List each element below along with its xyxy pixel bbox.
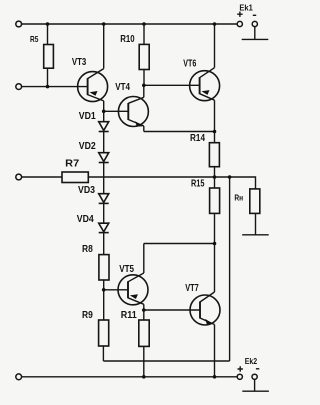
wire VT5 collector to main line: [144, 243, 215, 245]
junction top rail VT3 collector: [102, 22, 106, 26]
svg-text:R8: R8: [82, 244, 93, 255]
svg-text:Rн: Rн: [234, 192, 243, 202]
resistor R10: [139, 44, 149, 69]
resistor Rn load: [250, 189, 260, 214]
resistor R7: [62, 172, 88, 183]
junction top rail main: [213, 22, 217, 26]
wire VT3 collector vertical: [103, 24, 105, 69]
wire main vertical top: [214, 24, 216, 68]
svg-text:R7: R7: [65, 159, 79, 170]
wire VD4 to R8: [103, 233, 105, 255]
terminal input 2: [16, 84, 22, 90]
junction VT5 collector main: [213, 242, 217, 246]
wire Ek1 minus drop: [254, 27, 256, 40]
wire VT4 emitter drop: [143, 126, 145, 132]
svg-text:VT3: VT3: [72, 57, 87, 68]
svg-text:VD4: VD4: [77, 214, 94, 225]
wire VD2 to node out: [103, 163, 105, 194]
wire VD1 to VD2: [103, 132, 105, 153]
junction VT4 emitter main: [213, 130, 217, 134]
wire VD3 to VD4: [103, 203, 105, 223]
wire VT6 base: [144, 84, 200, 86]
transistor VT5: [118, 273, 148, 305]
label Ek1 plus sign: [237, 12, 242, 17]
wire main vertical R14 to R15: [214, 167, 216, 188]
svg-text:R9: R9: [82, 310, 93, 321]
svg-text:Ek1: Ek1: [239, 3, 253, 13]
svg-text:R15: R15: [191, 179, 205, 190]
wire Rn bottom to ground: [255, 213, 257, 234]
diode VD3: [99, 194, 109, 204]
junction top rail R5: [46, 22, 50, 26]
diode VD1: [99, 122, 109, 132]
junction bottom rail R11: [142, 375, 146, 379]
wire VT5 base: [104, 289, 128, 291]
svg-text:Ek2: Ek2: [245, 356, 258, 366]
terminal Ek1 plus: [237, 21, 242, 26]
wire R10 bottom: [143, 70, 145, 86]
wire VT5 collector vertical: [143, 244, 145, 274]
wire diode chain VT3 emitter to VD1: [103, 101, 105, 122]
resistor R11: [139, 320, 149, 346]
wire VT5 emitter drop: [143, 304, 145, 320]
terminal Ek1 minus: [252, 21, 257, 26]
svg-text:R5: R5: [30, 34, 39, 44]
terminal input 3: [16, 174, 22, 180]
ground Ek1 bar: [242, 38, 269, 40]
transistor VT7: [190, 292, 220, 325]
label Ek1 minus sign: [253, 14, 256, 16]
transistor VT6: [190, 68, 220, 101]
svg-text:VD2: VD2: [79, 141, 96, 152]
resistor R5: [44, 45, 54, 69]
wire VT3 base: [22, 86, 88, 88]
wire main vertical R15 to VT7 collector: [214, 213, 216, 292]
junction output main: [213, 175, 217, 179]
svg-text:R10: R10: [120, 33, 135, 45]
wire R5 bottom to input2: [47, 68, 49, 86]
ground Rn bar: [242, 234, 269, 236]
resistor R8: [99, 255, 109, 280]
wire R10 top drop: [143, 24, 145, 44]
transistor VT3: [78, 69, 108, 102]
wire feedback horizontal: [103, 360, 229, 362]
svg-text:VT6: VT6: [183, 59, 196, 70]
label Ek2 plus sign: [238, 366, 243, 371]
wire feedback vertical: [229, 177, 231, 361]
wire R9 bottom stub: [102, 346, 104, 361]
junction bottom rail main: [213, 375, 217, 379]
svg-text:R14: R14: [190, 133, 205, 144]
wire VT4 emitter to main line: [144, 131, 215, 133]
svg-text:VT5: VT5: [119, 264, 134, 275]
junction VT5 base node: [102, 288, 106, 292]
label Ek2 minus sign: [256, 368, 259, 370]
wire output node: [88, 177, 255, 189]
wire VT4 collector stub: [143, 85, 145, 97]
wire bottom rail: [22, 376, 238, 378]
wire top rail: [22, 23, 238, 25]
wire VT7 base: [144, 309, 200, 311]
resistor R15: [210, 188, 220, 213]
svg-text:R11: R11: [121, 310, 137, 321]
svg-text:VT7: VT7: [185, 283, 199, 294]
transistor VT4: [118, 97, 148, 127]
wire input3 to R7: [22, 176, 62, 178]
junction feedback output: [228, 175, 232, 179]
svg-text:VD1: VD1: [79, 111, 96, 122]
resistor R9: [99, 320, 109, 346]
terminal Ek2 plus: [237, 374, 242, 379]
wire main vertical VT6 emitter to R14: [214, 100, 216, 143]
terminal input 4: [16, 374, 22, 380]
wire Ek2 minus drop: [254, 379, 256, 391]
resistor R14: [209, 143, 219, 167]
wire main vertical VT7 emitter to bottom rail: [214, 325, 216, 377]
terminal input 1: [16, 21, 22, 27]
wire R8 bottom to R9 top: [103, 280, 105, 320]
ground Ek2 bar: [242, 390, 269, 392]
diode VD2: [99, 153, 109, 163]
junction R10 VT6 base: [142, 84, 146, 88]
svg-text:VD3: VD3: [78, 185, 95, 196]
junction R5 VT3 base: [46, 85, 50, 89]
diode VD4: [99, 223, 109, 232]
svg-text:VT4: VT4: [115, 82, 130, 93]
junction VT4 base node: [102, 110, 106, 114]
wire R11 bottom: [143, 346, 145, 376]
junction top rail R10: [142, 22, 146, 26]
terminal Ek2 minus: [252, 374, 257, 379]
junction VT5 emitter R11: [142, 308, 146, 312]
wire VT4 base: [104, 110, 129, 112]
wire R5 top drop: [47, 24, 49, 45]
